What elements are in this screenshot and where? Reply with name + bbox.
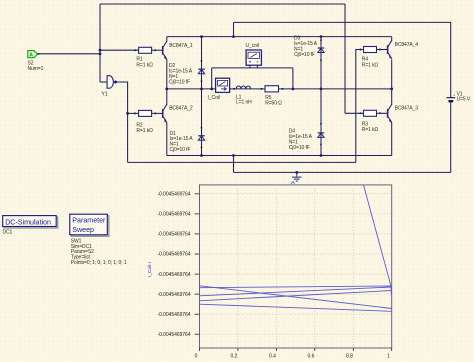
plot gridlines xyxy=(200,185,392,348)
wire R1 feed xyxy=(100,49,139,51)
wire Q4 collector up xyxy=(391,37,393,41)
resistor R1 xyxy=(134,47,156,53)
wire inverted drive bottom rail xyxy=(128,161,356,163)
diode D2 xyxy=(198,60,205,82)
wire R3 to Q3 base xyxy=(377,112,388,114)
transistor Q3 BC847A_3 xyxy=(388,104,392,123)
simulation box DC-Simulation DC1 xyxy=(3,216,58,236)
svg-text:-0.0045469764: -0.0045469764 xyxy=(158,192,191,198)
node D3/D4 column center xyxy=(320,88,323,91)
svg-text:BC847A_3: BC847A_3 xyxy=(395,105,419,111)
wire R3 feed horizontal xyxy=(345,112,364,114)
node D4 column bottom xyxy=(320,154,323,157)
node right bridge output xyxy=(390,88,393,91)
svg-text:-0.0045469764: -0.0045469764 xyxy=(158,232,191,238)
wire right vertical outer rail down to R3 feed xyxy=(344,4,346,113)
diagram plot frame xyxy=(200,185,392,348)
wire ground stub xyxy=(233,156,235,173)
wire Q2 collector up to center xyxy=(166,89,168,105)
resistor R3 xyxy=(360,110,382,116)
svg-text:0.6: 0.6 xyxy=(308,354,315,360)
wire Q1 collector up xyxy=(166,37,168,41)
svg-text:DC1: DC1 xyxy=(3,229,13,235)
transistor Q4 BC847A_4 xyxy=(388,40,392,59)
wire U_coil loop left vertical xyxy=(211,68,213,89)
svg-text:Sweep: Sweep xyxy=(72,226,94,234)
source V1 battery xyxy=(446,94,456,102)
wire collector rail V+ distribution xyxy=(167,36,392,38)
svg-text:BC847A_1: BC847A_1 xyxy=(169,43,193,49)
svg-text:-0.0045469764: -0.0045469764 xyxy=(158,332,191,338)
wire R2 to Q2 base xyxy=(152,112,163,114)
svg-text:BC847A_2: BC847A_2 xyxy=(169,106,193,112)
svg-text:Points=0; 1; 0; 1; 0; 1; 0; 1: Points=0; 1; 0; 1; 0; 1; 0; 1 xyxy=(71,260,127,266)
node junction at R2 branch xyxy=(126,112,129,115)
wire R4 to Q4 base xyxy=(377,49,388,51)
wire left vertical from outer rail down to gate input xyxy=(99,4,101,82)
node I_Coil probe left xyxy=(210,88,213,91)
diode D3 xyxy=(318,40,325,62)
svg-text:R=50 Ω: R=50 Ω xyxy=(265,100,282,106)
wire U_coil loop top xyxy=(212,67,293,69)
svg-text:0.8: 0.8 xyxy=(346,354,353,360)
svg-text:-0.0045469764: -0.0045469764 xyxy=(158,292,191,298)
wire R1 to Q1 base xyxy=(152,49,163,51)
node junction R1 feed xyxy=(99,49,102,52)
wire main bridge center line xyxy=(167,88,392,90)
gate Y1 (inverter) xyxy=(107,76,117,89)
svg-text:Cj0=10 fF: Cj0=10 fF xyxy=(169,79,190,85)
wire emitter rail xyxy=(167,155,392,157)
transistor Q1 BC847A_1 xyxy=(163,41,167,60)
wire U_coil pin stubs xyxy=(249,65,251,68)
wire gate output to R2/R4 branch xyxy=(117,82,128,162)
svg-text:-0.0045469764: -0.0045469764 xyxy=(158,212,191,218)
wire D3 column xyxy=(320,37,322,89)
svg-text:0.2: 0.2 xyxy=(231,354,238,360)
wire Q4 emitter down to center xyxy=(391,60,393,89)
svg-text:1: 1 xyxy=(387,354,390,360)
wire inverted drive vertical up to R4 xyxy=(356,50,364,163)
wire V+ stub xyxy=(233,22,235,36)
pin S2 output xyxy=(38,53,40,55)
svg-text:A: A xyxy=(29,52,33,58)
resistor R2 xyxy=(134,110,156,116)
node R5 right / U_coil right xyxy=(292,88,295,91)
source S2 (digital source) xyxy=(28,51,38,59)
svg-text:I_Coil.I: I_Coil.I xyxy=(147,262,153,277)
plot top marker xyxy=(291,182,295,184)
wire V1 bottom to ground rail xyxy=(450,102,452,172)
svg-text:Parameter: Parameter xyxy=(72,217,106,225)
plot x-axis ticks xyxy=(200,348,392,351)
wire Q2 emitter down xyxy=(166,123,168,156)
node junction S2/vertical xyxy=(99,52,102,55)
svg-text:0: 0 xyxy=(195,354,198,360)
simulation box Parameter Sweep SW1 xyxy=(70,214,109,236)
svg-text:Cj0=10 fF: Cj0=10 fF xyxy=(294,52,315,58)
plot x-axis labels xyxy=(195,354,391,360)
probe I_Coil xyxy=(216,78,230,92)
svg-text:U_coil: U_coil xyxy=(246,43,259,49)
probe U_coil xyxy=(246,50,261,65)
wire U_coil loop right vertical xyxy=(292,68,294,89)
resistor R5 xyxy=(265,86,284,92)
svg-text:-0.0045469764: -0.0045469764 xyxy=(158,312,191,318)
wire Q3 emitter down xyxy=(391,123,393,156)
wire Q1 emitter down to center xyxy=(166,60,168,89)
wire R2 feed xyxy=(128,112,139,114)
svg-text:L=1 nH: L=1 nH xyxy=(236,99,252,105)
svg-text:R=1 kΩ: R=1 kΩ xyxy=(136,128,153,134)
node V+ stub top xyxy=(232,35,235,38)
node D2/D1 column center xyxy=(200,88,203,91)
svg-text:U=5 V: U=5 V xyxy=(457,97,471,103)
wire top outer drive rail xyxy=(100,3,345,5)
node D1 column bottom xyxy=(200,154,203,157)
wire D4 column xyxy=(320,89,322,156)
wire V+ rail to V1 xyxy=(234,22,451,97)
svg-text:BC847A_4: BC847A_4 xyxy=(395,42,419,48)
svg-text:-0.0045469764: -0.0045469764 xyxy=(158,272,191,278)
svg-text:Num=1: Num=1 xyxy=(28,66,44,72)
svg-text:R=1 kΩ: R=1 kΩ xyxy=(362,127,379,133)
inductor L1 xyxy=(233,86,262,90)
diode D1 xyxy=(198,127,205,148)
value SW1 parameter list xyxy=(71,238,127,266)
svg-text:R=1 kΩ: R=1 kΩ xyxy=(136,62,153,68)
svg-text:I_Coil: I_Coil xyxy=(208,95,220,101)
svg-text:0.4: 0.4 xyxy=(269,354,276,360)
svg-text:Cj0=10 fF: Cj0=10 fF xyxy=(289,145,310,151)
ground symbol xyxy=(292,171,302,181)
svg-text:DC-Simulation: DC-Simulation xyxy=(5,218,51,226)
wire S2 output horizontal xyxy=(38,53,101,55)
node D3 column top xyxy=(320,35,323,38)
node left bridge output xyxy=(165,88,168,91)
plot y-axis labels xyxy=(158,192,191,338)
wire D2 column xyxy=(201,37,203,89)
svg-text:R=1 kΩ: R=1 kΩ xyxy=(362,62,379,68)
wire ground rail xyxy=(234,171,451,173)
wire Q3 collector up to center xyxy=(391,89,393,105)
transistor Q2 BC847A_2 xyxy=(163,104,167,123)
plot y-axis ticks xyxy=(195,194,200,334)
node ground stub top xyxy=(232,154,235,157)
svg-text:Y1: Y1 xyxy=(102,91,108,97)
diode D4 xyxy=(318,123,325,145)
svg-text:Cj0=10 fF: Cj0=10 fF xyxy=(170,147,191,153)
wire D1 column xyxy=(201,89,203,156)
svg-text:-0.0045469764: -0.0045469764 xyxy=(158,252,191,258)
resistor R4 xyxy=(360,47,382,53)
wire gate input xyxy=(100,81,107,83)
curve I_Coil.I sweep trace xyxy=(200,185,392,311)
node D2 column top xyxy=(200,35,203,38)
